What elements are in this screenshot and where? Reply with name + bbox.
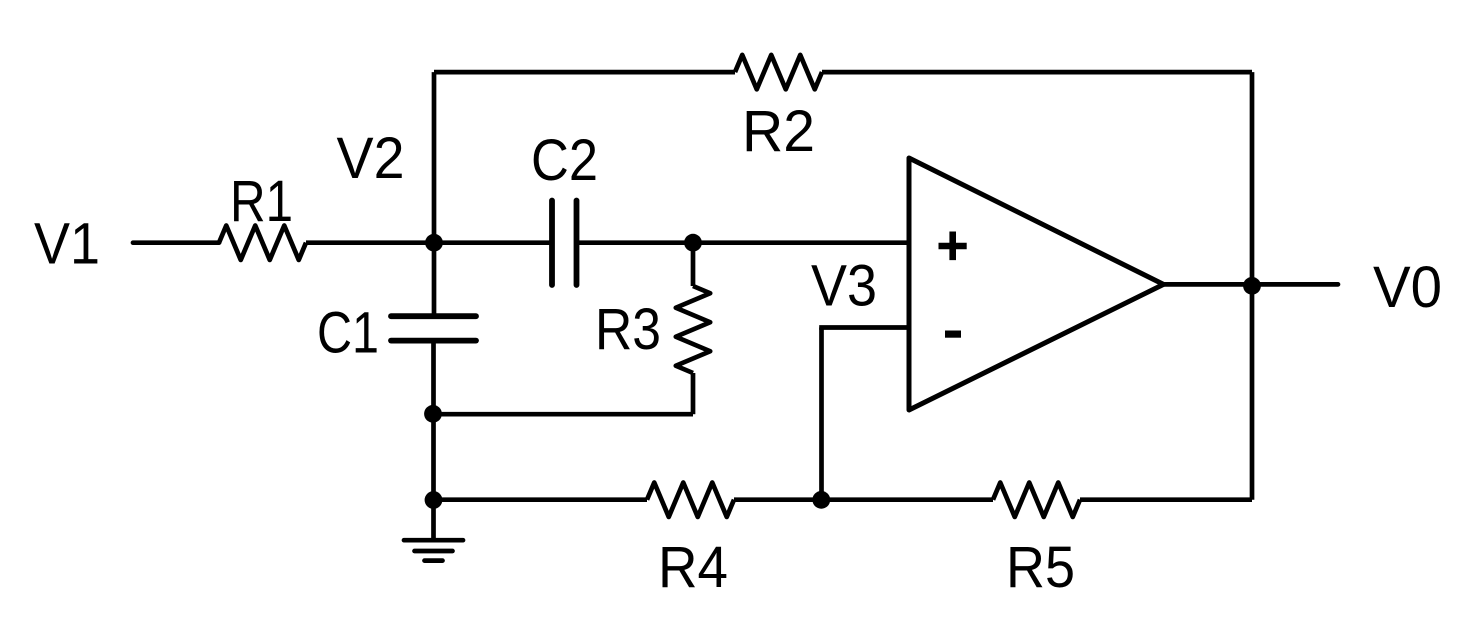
- wire minus input into op-amp: [819, 325, 909, 330]
- svg-text:V2: V2: [337, 126, 405, 191]
- ground: [404, 540, 463, 560]
- capacitor C1: [391, 316, 476, 340]
- svg-text:V3: V3: [811, 254, 877, 319]
- resistor R4: [647, 483, 734, 517]
- wire right rail down to output node and R5: [1250, 72, 1255, 500]
- op-amp U1: [909, 158, 1164, 410]
- wire top rail right segment to right rail corner: [822, 70, 1252, 75]
- wire node down to R3: [691, 243, 696, 286]
- resistor R5: [993, 483, 1080, 517]
- node junction dot C1/R3: [424, 405, 442, 423]
- resistor R2: [735, 55, 822, 89]
- resistor R3: [676, 286, 710, 373]
- capacitor C2: [552, 201, 577, 286]
- node V2 junction dot: [425, 234, 443, 252]
- wire R3 bottom lead: [691, 373, 696, 414]
- wire R5 to right rail: [1080, 497, 1252, 502]
- wire C2 right plate to op-amp plus input through node: [577, 240, 910, 245]
- node output junction dot: [1243, 277, 1261, 295]
- wire op-amp output to V0: [1164, 282, 1339, 287]
- svg-text:C1: C1: [317, 301, 379, 366]
- wire V3 node up to minus input level: [819, 328, 824, 500]
- svg-text:R2: R2: [742, 99, 815, 164]
- wire R3 bottom to C1 bottom node: [434, 412, 694, 417]
- wire top rail left segment to R2: [434, 70, 735, 75]
- wire ground node to R4: [434, 497, 648, 502]
- svg-text:V1: V1: [34, 212, 100, 277]
- wire V1 lead to R1: [133, 240, 219, 245]
- node junction dot at C2/R3: [684, 234, 702, 252]
- node V3 junction dot: [812, 491, 830, 509]
- wire R4 to R5 through node V3: [734, 497, 993, 502]
- svg-text:C2: C2: [531, 128, 598, 193]
- svg-text:R1: R1: [230, 169, 293, 234]
- svg-text:V0: V0: [1373, 255, 1442, 320]
- resistor R1: [219, 226, 306, 260]
- wire C1 bottom plate down to ground through junctions: [431, 341, 436, 541]
- wire V2 rail up to top rail: [432, 72, 437, 316]
- svg-text:R4: R4: [658, 535, 728, 600]
- svg-text:R5: R5: [1006, 535, 1075, 600]
- svg-text:R3: R3: [595, 297, 661, 362]
- wire R1 to C2 left plate through node V2: [306, 240, 550, 245]
- node junction dot ground/R4: [425, 491, 443, 509]
